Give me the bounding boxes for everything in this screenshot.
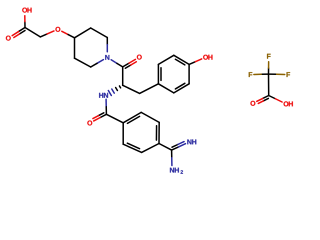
phenol ring double bond C5=C6: [174, 83, 189, 93]
bond carbonyl C-chiral C: [122, 67, 124, 85]
benzamidine ring bond C2-C3: [141, 112, 159, 122]
label O ether: [55, 27, 60, 32]
bond ring C4-amidine C: [159, 144, 172, 151]
bond C-F top (TFA): [268, 62, 270, 74]
label OH hydroxyl (TFA): [284, 101, 293, 106]
bond chiral C-benzyl CH2: [123, 85, 140, 93]
double bond C=O (amide 2): [93, 113, 106, 121]
label O carbonyl (acetic acid): [6, 36, 11, 41]
bond amidine C-NH2: [171, 150, 173, 165]
label F fluorine right (TFA): [287, 72, 291, 77]
label OH phenol: [203, 55, 212, 60]
bond C-C (TFA): [268, 74, 270, 95]
bond C4-OH phenol: [189, 59, 202, 64]
bond C-CH2 (acetic acid): [25, 28, 40, 37]
label F fluorine left (TFA): [249, 72, 253, 77]
label O carbonyl (TFA): [250, 101, 255, 106]
bond O-C4 piperidine: [62, 31, 75, 37]
phenol ring bond C6-C1: [158, 84, 173, 93]
label NH amidine imine: [187, 139, 196, 144]
bond C-F right (TFA): [269, 73, 285, 75]
benzamidine ring double bond C3=C4: [156, 122, 159, 143]
piperidine ring bond C6-C5: [75, 58, 91, 67]
double bond C=O (amide 1): [123, 59, 137, 68]
bond C-OH (acetic acid): [24, 16, 26, 28]
double bond C=O (TFA): [257, 96, 269, 104]
phenol ring double bond C3=C4: [174, 55, 189, 65]
piperidine ring bond C4-C3: [75, 28, 91, 38]
bond HN-C carbonyl (amide 2): [105, 99, 107, 114]
piperidine ring bond C2-N: [106, 38, 108, 52]
label OH hydroxyl (acetic acid): [22, 8, 31, 13]
bond CH2-phenol ring C1: [140, 84, 159, 94]
double bond C=NH amidine: [172, 142, 186, 151]
bond carbonyl C-benzamidine ring C1: [106, 114, 123, 123]
bond N-C carbonyl (amide 1): [111, 60, 123, 67]
benzamidine ring double bond C5=C6: [123, 143, 141, 152]
label O carbonyl (amide 1): [137, 55, 142, 60]
phenol ring bond C2-C3: [158, 55, 173, 64]
benzamidine ring bond C4-C5: [142, 144, 159, 153]
bond C-OH (TFA): [269, 96, 282, 103]
piperidine ring bond C5-C4: [74, 38, 76, 58]
double bond C=O (acetic acid): [12, 28, 25, 38]
label N piperidine: [105, 55, 109, 60]
bond CH2-O ether: [40, 31, 54, 37]
label NH2 amidine amine: [170, 168, 183, 174]
bond C-F left (TFA): [254, 73, 269, 75]
label O carbonyl (amide 2): [87, 121, 92, 126]
hashed stereo wedge from chiral C to amide NH: [108, 86, 120, 96]
benzamidine ring bond C6-C1: [122, 123, 124, 144]
benzamidine ring double bond C1=C2: [123, 112, 141, 123]
phenol ring double bond C1=C2: [158, 64, 161, 83]
phenol ring bond C4-C5: [188, 64, 190, 83]
label HN amide: [99, 93, 108, 98]
piperidine ring bond C3-C2: [91, 28, 108, 38]
label F fluorine top (TFA): [267, 54, 271, 59]
piperidine ring bond N-C6: [91, 60, 104, 67]
